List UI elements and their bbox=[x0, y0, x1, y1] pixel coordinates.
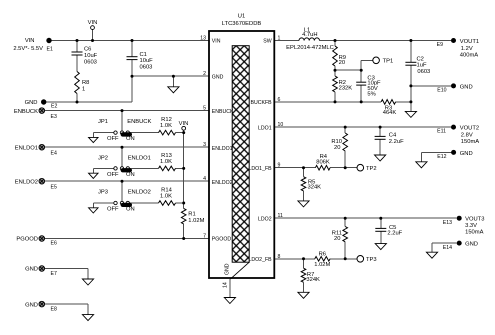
wire ENLDO2 net bbox=[45, 181, 210, 201]
svg-text:E6: E6 bbox=[51, 240, 57, 246]
svg-text:VIN: VIN bbox=[25, 38, 35, 44]
wire LDO2_FB net bbox=[274, 258, 357, 260]
svg-text:PGOOD: PGOOD bbox=[16, 237, 38, 243]
svg-text:10: 10 bbox=[278, 122, 284, 128]
svg-text:GND: GND bbox=[25, 100, 38, 106]
resistor R9 bbox=[333, 46, 346, 66]
svg-text:1.0K: 1.0K bbox=[160, 123, 172, 129]
svg-text:2.2uF: 2.2uF bbox=[389, 139, 404, 145]
resistor R10 bbox=[331, 133, 347, 151]
svg-text:ON: ON bbox=[126, 172, 135, 178]
svg-text:2.5V*- 5.5V: 2.5V*- 5.5V bbox=[13, 46, 43, 52]
svg-text:ON: ON bbox=[126, 136, 135, 142]
svg-text:6: 6 bbox=[278, 97, 281, 103]
wire BUCKFB net bbox=[274, 101, 411, 103]
svg-text:U1: U1 bbox=[238, 14, 245, 20]
ground below C4 bbox=[375, 155, 386, 161]
wire GND pin2 net bbox=[44, 76, 209, 102]
node E8 GND terminal bbox=[25, 301, 57, 312]
ground below R7 bbox=[298, 292, 309, 298]
svg-text:TP1: TP1 bbox=[383, 59, 394, 65]
capacitor C3 bbox=[356, 75, 381, 97]
resistor R12 bbox=[159, 117, 176, 135]
op-amp-style IC U1 LTC3670EDDB body bbox=[209, 14, 274, 279]
svg-text:806K: 806K bbox=[316, 159, 330, 165]
node E1 VIN input terminal bbox=[13, 38, 53, 53]
svg-text:400mA: 400mA bbox=[460, 52, 479, 58]
svg-text:ENBUCK: ENBUCK bbox=[127, 119, 151, 125]
svg-text:ENLDO1: ENLDO1 bbox=[15, 145, 38, 151]
wire LDO2 / VOUT3 net bbox=[274, 217, 457, 219]
svg-text:R8: R8 bbox=[82, 80, 89, 86]
capacitor C6 bbox=[72, 47, 98, 66]
svg-text:E12: E12 bbox=[437, 154, 446, 160]
resistor R8 bbox=[75, 72, 90, 94]
jumper JP3 bbox=[98, 189, 151, 212]
wire R2 branch bbox=[334, 70, 336, 102]
svg-text:E11: E11 bbox=[437, 129, 446, 135]
svg-text:ENLDO2: ENLDO2 bbox=[212, 180, 233, 186]
svg-text:OFF: OFF bbox=[107, 172, 119, 178]
svg-text:E7: E7 bbox=[51, 271, 57, 277]
svg-text:2.8V: 2.8V bbox=[461, 132, 473, 138]
U1 pin names left bbox=[212, 39, 234, 243]
wire LDO1_FB net bbox=[274, 167, 357, 169]
svg-text:20: 20 bbox=[339, 60, 345, 66]
node E5 ENLDO2 terminal bbox=[15, 178, 57, 190]
svg-text:VOUT2: VOUT2 bbox=[460, 126, 479, 132]
node E11 VOUT2 bbox=[437, 125, 479, 145]
ground at E12 bbox=[416, 162, 427, 168]
wire VIN net bbox=[49, 30, 209, 41]
ground below U1 pad bbox=[224, 298, 235, 304]
svg-text:JP1: JP1 bbox=[98, 119, 108, 125]
svg-text:GND: GND bbox=[25, 267, 38, 273]
ground below C2/R3 bbox=[405, 111, 416, 117]
ground at JP1 bbox=[89, 137, 99, 142]
svg-text:GND: GND bbox=[225, 263, 231, 275]
svg-text:VOUT1: VOUT1 bbox=[460, 39, 479, 45]
svg-text:13: 13 bbox=[200, 36, 206, 42]
svg-text:ENLDO2: ENLDO2 bbox=[128, 189, 151, 195]
svg-text:1: 1 bbox=[82, 86, 85, 92]
resistor R2 bbox=[333, 76, 353, 92]
svg-text:4.7uH: 4.7uH bbox=[302, 32, 317, 38]
wire E12 GND bbox=[421, 152, 451, 161]
svg-text:5: 5 bbox=[203, 106, 206, 112]
svg-text:E14: E14 bbox=[443, 245, 452, 251]
svg-text:1.2V: 1.2V bbox=[461, 46, 473, 52]
wire C4 branch bbox=[379, 127, 381, 155]
svg-text:LTC3670EDDB: LTC3670EDDB bbox=[222, 21, 262, 27]
svg-text:EPL2014-472MLC: EPL2014-472MLC bbox=[286, 45, 334, 51]
wire C3 branch bbox=[360, 70, 362, 102]
svg-text:TP2: TP2 bbox=[366, 166, 377, 172]
svg-text:GND: GND bbox=[460, 151, 473, 157]
node E6 PGOOD terminal bbox=[16, 236, 57, 247]
svg-text:R6: R6 bbox=[319, 251, 326, 257]
node E4 ENLDO1 terminal bbox=[15, 144, 57, 156]
wire E8 to ground bbox=[45, 304, 89, 315]
wire buck fb node bbox=[335, 69, 361, 71]
svg-text:VIN: VIN bbox=[212, 39, 221, 45]
ground below R5 bbox=[298, 201, 309, 207]
U1 pin names right bbox=[249, 39, 273, 263]
svg-text:E1: E1 bbox=[47, 46, 53, 52]
svg-text:ENLDO1: ENLDO1 bbox=[212, 146, 233, 152]
U1 pin numbers bbox=[200, 36, 283, 289]
svg-text:1.0K: 1.0K bbox=[160, 159, 172, 165]
svg-text:0603: 0603 bbox=[417, 69, 430, 75]
svg-text:7: 7 bbox=[203, 234, 206, 240]
svg-text:ENBUCK: ENBUCK bbox=[14, 109, 38, 115]
svg-text:20: 20 bbox=[334, 145, 340, 151]
svg-text:JP2: JP2 bbox=[98, 155, 108, 161]
svg-text:10uF: 10uF bbox=[140, 58, 154, 64]
svg-text:1.0K: 1.0K bbox=[160, 194, 172, 200]
svg-text:E9: E9 bbox=[437, 42, 443, 48]
svg-text:1.02M: 1.02M bbox=[188, 218, 204, 224]
capacitor C2 bbox=[405, 57, 430, 75]
svg-text:0603: 0603 bbox=[140, 65, 153, 71]
svg-text:ENLDO2: ENLDO2 bbox=[15, 179, 38, 185]
capacitor C1 bbox=[127, 52, 154, 71]
svg-text:ON: ON bbox=[126, 207, 135, 213]
svg-text:4: 4 bbox=[203, 176, 206, 182]
svg-text:C6: C6 bbox=[84, 47, 91, 53]
svg-text:1: 1 bbox=[278, 36, 281, 42]
svg-text:E4: E4 bbox=[51, 150, 57, 156]
wire LDO1 / VOUT2 net bbox=[274, 126, 451, 128]
svg-text:232K: 232K bbox=[339, 86, 353, 92]
wire JP3 row bbox=[93, 203, 183, 208]
svg-text:SW: SW bbox=[263, 39, 271, 45]
wire E10 GND bbox=[411, 85, 451, 87]
node E12 GND bbox=[437, 150, 472, 160]
svg-text:150mA: 150mA bbox=[465, 229, 484, 235]
svg-text:E5: E5 bbox=[51, 184, 57, 190]
svg-text:JP3: JP3 bbox=[98, 189, 108, 195]
svg-text:R1: R1 bbox=[188, 212, 195, 218]
svg-text:3.3V: 3.3V bbox=[465, 223, 477, 229]
svg-text:E3: E3 bbox=[51, 114, 57, 120]
wire R9 branch bbox=[334, 41, 336, 71]
wire E14 GND bbox=[432, 243, 457, 252]
ground below C5 bbox=[375, 244, 386, 250]
resistor R7 bbox=[301, 268, 320, 283]
svg-text:LDO1_FB: LDO1_FB bbox=[249, 166, 273, 172]
capacitor C4 bbox=[375, 133, 404, 145]
node E14 GND bbox=[443, 241, 478, 251]
wire PGOOD net bbox=[45, 238, 210, 240]
svg-text:324K: 324K bbox=[308, 185, 322, 191]
svg-text:GND: GND bbox=[25, 302, 38, 308]
svg-text:ENLDO1: ENLDO1 bbox=[128, 155, 151, 161]
svg-text:3: 3 bbox=[203, 142, 206, 148]
inductor L1 bbox=[286, 27, 334, 51]
ground at E14 bbox=[426, 252, 437, 258]
svg-text:LDO2: LDO2 bbox=[258, 216, 272, 222]
svg-text:150mA: 150mA bbox=[461, 139, 480, 145]
svg-text:GND: GND bbox=[465, 242, 478, 248]
wire E7 to ground bbox=[45, 269, 89, 280]
wire R5 branch bbox=[303, 168, 305, 201]
svg-text:E10: E10 bbox=[437, 88, 446, 94]
wire R11 branch bbox=[344, 218, 346, 259]
wire JP2 row bbox=[93, 168, 183, 173]
svg-text:5%: 5% bbox=[367, 91, 375, 97]
ground at JP3 bbox=[89, 208, 99, 213]
svg-text:10uF: 10uF bbox=[84, 53, 98, 59]
ground at JP2 bbox=[89, 173, 99, 178]
node E13 VOUT3 bbox=[443, 216, 485, 236]
wire R7 branch bbox=[303, 259, 305, 293]
wire C1 branch bbox=[131, 41, 133, 77]
svg-text:2: 2 bbox=[203, 71, 206, 77]
ground at E7 bbox=[82, 279, 93, 285]
resistor R1 bbox=[181, 208, 204, 224]
wire ENBUCK net bbox=[45, 111, 210, 132]
svg-text:VIN: VIN bbox=[179, 121, 189, 127]
svg-text:LDO1: LDO1 bbox=[258, 125, 272, 131]
svg-text:TP3: TP3 bbox=[366, 257, 377, 263]
svg-text:GND: GND bbox=[460, 84, 473, 90]
svg-text:VIN: VIN bbox=[88, 20, 98, 26]
svg-text:E13: E13 bbox=[443, 220, 452, 226]
svg-text:E2: E2 bbox=[51, 103, 57, 109]
resistor R3 bbox=[381, 100, 396, 117]
resistor R4 bbox=[315, 154, 330, 170]
svg-text:0603: 0603 bbox=[84, 59, 97, 65]
wire TP1 stub bbox=[361, 60, 373, 70]
svg-text:PGOOD: PGOOD bbox=[212, 237, 232, 243]
svg-text:E8: E8 bbox=[51, 306, 57, 312]
test point TP3 bbox=[357, 255, 377, 263]
jumper JP1 bbox=[98, 119, 152, 142]
VIN power flag top bbox=[88, 20, 98, 30]
svg-text:20: 20 bbox=[334, 236, 340, 242]
resistor R14 bbox=[159, 188, 176, 206]
svg-text:14: 14 bbox=[223, 282, 229, 288]
wire C6 branch bbox=[76, 41, 78, 103]
svg-text:324K: 324K bbox=[306, 277, 320, 283]
node E9 VOUT1 bbox=[437, 38, 479, 58]
wire C5 branch bbox=[380, 218, 382, 243]
node E2 GND terminal bbox=[25, 99, 58, 109]
capacitor C5 bbox=[375, 225, 402, 237]
wire C2 column bbox=[410, 41, 412, 112]
svg-text:11: 11 bbox=[278, 213, 283, 219]
wire R10 branch bbox=[344, 127, 346, 168]
svg-text:2.2uF: 2.2uF bbox=[387, 231, 402, 237]
test point TP2 bbox=[357, 164, 377, 172]
jumper JP2 bbox=[98, 155, 151, 178]
resistor R6 bbox=[314, 251, 330, 268]
svg-text:LDO2_FB: LDO2_FB bbox=[249, 257, 273, 263]
svg-text:VOUT3: VOUT3 bbox=[465, 217, 484, 223]
svg-text:BUCKFB: BUCKFB bbox=[251, 100, 273, 106]
node E3 ENBUCK terminal bbox=[14, 108, 57, 120]
U1 exposed pad crosshatch bbox=[225, 46, 250, 279]
svg-text:OFF: OFF bbox=[107, 136, 119, 142]
wire SW / VOUT1 net bbox=[274, 40, 451, 42]
node E10 GND bbox=[437, 83, 472, 93]
ground on GND pin2 wire bbox=[168, 87, 179, 93]
resistor R13 bbox=[159, 153, 176, 171]
VIN power flag at R12 bbox=[179, 121, 189, 130]
svg-text:1uF: 1uF bbox=[417, 63, 427, 69]
wire VIN pullup rail bbox=[183, 130, 185, 238]
svg-text:C4: C4 bbox=[389, 133, 397, 139]
svg-text:1.02M: 1.02M bbox=[314, 262, 330, 268]
svg-text:9: 9 bbox=[278, 163, 281, 169]
svg-text:C1: C1 bbox=[140, 52, 147, 58]
svg-text:ENBUCK: ENBUCK bbox=[212, 109, 234, 115]
svg-text:OFF: OFF bbox=[107, 207, 119, 213]
wire ENLDO1 net bbox=[45, 147, 210, 167]
svg-text:8: 8 bbox=[278, 254, 281, 260]
svg-text:464K: 464K bbox=[383, 110, 397, 116]
wire JP1 row bbox=[93, 133, 183, 138]
node E7 GND terminal bbox=[25, 266, 57, 277]
resistor R5 bbox=[301, 177, 321, 191]
wire IC exposed pad pin 14 bbox=[229, 279, 231, 297]
svg-text:GND: GND bbox=[212, 74, 224, 80]
resistor R11 bbox=[332, 227, 348, 243]
test point TP1 bbox=[373, 57, 393, 65]
ground at E8 bbox=[82, 315, 93, 321]
